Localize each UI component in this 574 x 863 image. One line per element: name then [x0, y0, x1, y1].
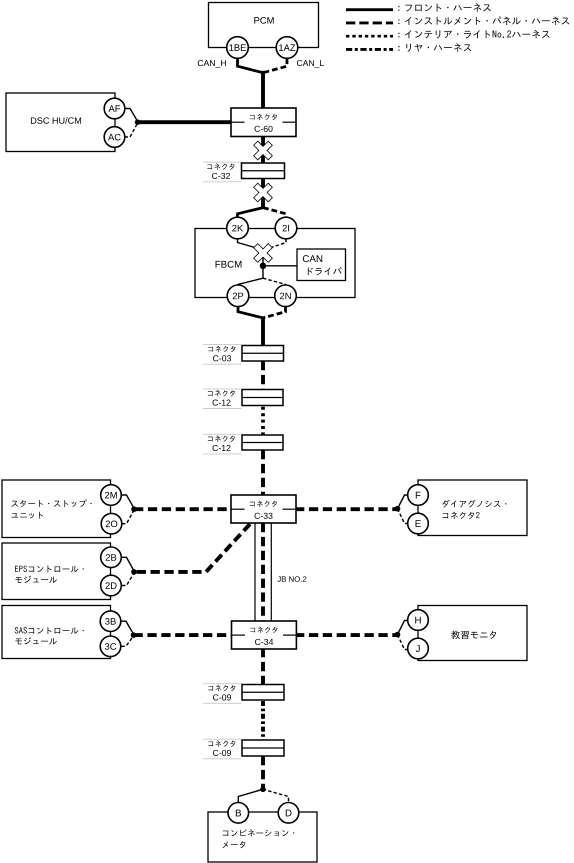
label JB NO.2: [277, 576, 306, 582]
label CAN_H: [198, 60, 226, 68]
legend line interior light No.2 harness: [346, 35, 393, 38]
wire FBCM split to pin 2I: [263, 208, 286, 218]
pin F: [408, 485, 429, 506]
connector C-60 box: [231, 108, 296, 137]
twisted-pair symbol inside FBCM: [254, 244, 272, 262]
pin J: [408, 638, 429, 659]
wire junction to pin E: [398, 509, 409, 524]
legend line front harness: [346, 8, 393, 11]
wire FBCM inner to pin 2P: [238, 278, 263, 285]
node EPS junction: [131, 569, 137, 575]
wire C-34 to monitor junction: [295, 633, 398, 637]
module diagnosis connector 2 box: [418, 480, 527, 536]
wire trunk C-32 to FBCM split: [261, 178, 265, 208]
wire trunk C-34 to C-09: [261, 648, 265, 686]
wire trunk C-60 to C-32: [261, 135, 265, 164]
connector C-09 lower: [203, 738, 242, 740]
connector C-12 lower: [203, 433, 242, 435]
label CAN_L: [297, 60, 324, 68]
wire trunk PCM junction to connector C-60: [261, 71, 265, 112]
legend label rear harness: [398, 43, 471, 52]
legend label instrument panel harness: [398, 16, 569, 24]
wire trunk C-09 to meter junction: [261, 756, 265, 790]
connector C-32: [203, 161, 242, 163]
connector C-33 box: [231, 495, 296, 523]
wire SAS junction to C-34: [134, 633, 233, 637]
wire start-stop 2O to junction: [122, 510, 134, 524]
twisted-pair symbol above C-32: [254, 142, 272, 160]
pin 3B: [100, 611, 121, 632]
wire FBCM inner vertical: [262, 248, 264, 278]
node diagnosis junction: [395, 506, 401, 512]
wire junction to pin F: [398, 495, 409, 509]
pin 2N: [275, 285, 297, 307]
module FBCM box: [195, 229, 355, 298]
wire trunk merge to connector C-03: [261, 317, 265, 347]
module EPS control module box: [2, 543, 111, 600]
wire DSC AF to junction: [125, 109, 138, 122]
pin AF: [104, 98, 125, 119]
wire EPS trunk diagonal to C-33: [134, 524, 250, 572]
connector C-34 box: [232, 621, 297, 649]
module start-stop unit box: [2, 480, 111, 538]
connector C-12 upper: [203, 388, 242, 390]
module PCM box: [209, 3, 319, 48]
module DSC HU/CM box: [6, 93, 115, 152]
pin 1AZ: [276, 37, 298, 59]
wire SAS 3B to junction: [122, 621, 134, 634]
wire FBCM tap to CAN driver: [263, 265, 298, 267]
node DSC junction: [135, 119, 141, 125]
wire EPS 2D to junction: [122, 573, 134, 586]
wire FBCM inner to pin 2N: [263, 278, 286, 285]
pin B: [228, 803, 249, 824]
wire CAN_H PCM 1BE to junction: [238, 58, 262, 72]
pin 2B: [101, 547, 122, 568]
pin AC: [104, 127, 125, 148]
wire trunk C-03 to C-12: [261, 361, 265, 390]
wire DSC AC to junction: [125, 123, 138, 137]
pin D: [278, 803, 299, 824]
wire trunk C-12 to C-12 dotted: [261, 407, 265, 435]
wire trunk C-09 to C-09 dash-dot: [261, 701, 265, 740]
node monitor junction: [395, 632, 401, 638]
connector C-09 upper: [203, 683, 242, 685]
pin 1BE: [227, 37, 249, 59]
module combination meter box: [208, 812, 317, 862]
pin 2D: [101, 575, 122, 596]
node FBCM CAN driver tap: [260, 263, 267, 270]
legend line rear harness: [346, 48, 393, 51]
twisted-pair symbol below C-32: [254, 184, 272, 202]
module training monitor box: [418, 606, 527, 661]
node start-stop junction: [131, 506, 137, 512]
wire CAN_L PCM 1AZ to junction: [265, 58, 288, 72]
pin H: [408, 610, 429, 631]
wire EPS 2B to junction: [122, 557, 134, 571]
wire meter junction to pin D: [263, 789, 289, 803]
node meter junction: [260, 787, 266, 793]
pin 3C: [100, 636, 121, 657]
wire SAS 3C to junction: [122, 636, 134, 647]
wire start-stop 2M to junction: [122, 495, 134, 508]
wire junction to pin J: [398, 635, 409, 650]
pin E: [408, 513, 429, 534]
wire meter junction to pin B: [238, 789, 262, 803]
wire FBCM split to pin 2K: [238, 208, 264, 218]
CAN driver box: [297, 249, 346, 281]
wire start-stop junction to C-33: [134, 507, 232, 511]
pin 2M: [101, 485, 122, 506]
pin 2P: [227, 285, 249, 307]
wire FBCM inner 2I to twist: [269, 239, 287, 249]
wire C-33 to diagnosis junction: [295, 507, 398, 511]
wire DSC junction to connector C-60: [137, 120, 233, 124]
wire trunk C-12 to connector C-33: [261, 450, 265, 496]
wire pin 2N to merge: [263, 306, 286, 318]
connector C-03: [203, 344, 242, 346]
pin 2K: [227, 217, 249, 239]
module SAS control module box: [2, 606, 111, 659]
wire pin 2P to merge: [238, 306, 263, 318]
wire junction to pin H: [398, 621, 409, 635]
JB NO.2 rails: [254, 523, 256, 622]
pin 2O: [101, 513, 122, 534]
wire JB NO.2 trunk C-33 to C-34: [261, 523, 265, 622]
legend label interior light No.2 harness: [398, 30, 549, 39]
legend line instrument panel harness: [346, 21, 393, 24]
legend label front harness: [398, 3, 491, 11]
node SAS junction: [131, 632, 137, 638]
wire FBCM inner 2K to twist: [238, 239, 258, 249]
pin 2I: [275, 217, 297, 239]
